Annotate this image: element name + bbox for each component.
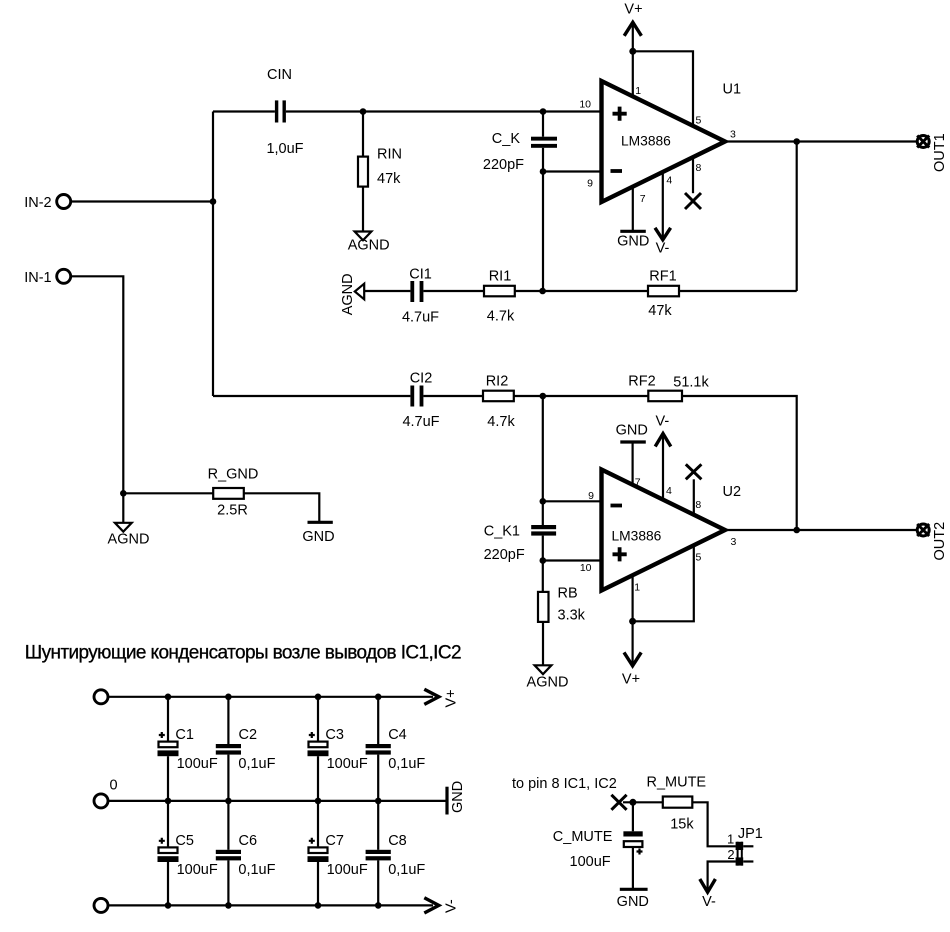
pin number 1 U1 — [635, 85, 641, 97]
wire CIN to pin 10 — [286, 110, 601, 112]
pin 8 no-connect X U2 — [686, 464, 702, 515]
wire CI2 to RI2 — [423, 395, 483, 397]
svg-text:GND: GND — [450, 781, 466, 813]
svg-text:100uF: 100uF — [570, 854, 611, 870]
svg-text:100uF: 100uF — [177, 862, 218, 878]
svg-text:0,1uF: 0,1uF — [238, 756, 275, 772]
capacitor C3 100uF — [308, 697, 368, 801]
pin number 3 U1 — [730, 129, 736, 141]
svg-text:JP1: JP1 — [738, 826, 763, 842]
wire RF2 to output U2 — [682, 396, 797, 530]
connector IN-1 — [24, 269, 71, 286]
wire V- rail — [108, 904, 433, 906]
wire output U1 — [725, 140, 917, 142]
pin number 2 JP1 — [727, 847, 734, 862]
connector OUT1 — [917, 133, 948, 172]
svg-text:5: 5 — [696, 115, 702, 127]
wire input bus to CI2 — [213, 395, 410, 397]
op-amp U2 LM3886 — [602, 470, 742, 591]
svg-text:47k: 47k — [648, 303, 672, 319]
capacitor C8 0,1uF — [366, 801, 426, 906]
wire R_MUTE to JP1 pin 1 — [692, 802, 736, 846]
svg-text:to pin 8 IC1, IC2: to pin 8 IC1, IC2 — [512, 776, 617, 792]
wire input bus vertical — [212, 112, 214, 397]
junction V+ rail C2 — [225, 694, 232, 701]
wire IN-1 down to R_GND node — [71, 276, 123, 493]
wire R_GND to GND — [244, 493, 319, 522]
svg-text:7: 7 — [635, 476, 641, 488]
svg-text:4.7uF: 4.7uF — [402, 414, 439, 430]
svg-text:15k: 15k — [670, 816, 694, 832]
pin number 4 U1 — [666, 175, 672, 187]
junction 0 rail C1 — [165, 798, 172, 805]
wire feedback vertical U1 — [796, 142, 798, 292]
svg-text:V+: V+ — [624, 2, 642, 18]
power V+ rail arrow — [424, 689, 459, 707]
svg-text:10: 10 — [580, 562, 592, 574]
svg-text:IN-1: IN-1 — [24, 270, 51, 286]
svg-text:8: 8 — [696, 162, 702, 174]
svg-text:C5: C5 — [175, 833, 194, 849]
svg-text:GND: GND — [616, 422, 648, 438]
svg-text:7: 7 — [640, 193, 646, 205]
svg-text:C7: C7 — [325, 833, 344, 849]
wire V+ rail — [108, 696, 433, 698]
junction C_K top tap — [540, 108, 547, 115]
power V- arrow pin 4 U2 — [655, 413, 671, 500]
svg-text:GND: GND — [302, 529, 334, 545]
svg-text:R_GND: R_GND — [208, 467, 259, 483]
svg-text:V-: V- — [656, 240, 670, 256]
resistor RIN 47k — [358, 112, 402, 232]
capacitor C1 100uF — [158, 697, 218, 801]
svg-text:OUT2: OUT2 — [932, 522, 948, 561]
svg-text:CI2: CI2 — [410, 371, 433, 387]
pin number 8 U1 — [696, 162, 702, 174]
ground GND pin 7 U2 — [616, 422, 648, 485]
svg-text:4.7uF: 4.7uF — [402, 310, 439, 326]
pin number 5 U2 — [696, 551, 702, 563]
svg-text:AGND: AGND — [108, 532, 150, 548]
svg-text:4: 4 — [666, 485, 672, 497]
svg-text:100uF: 100uF — [327, 756, 368, 772]
power V+ arrow U2 — [622, 621, 641, 687]
svg-text:4.7k: 4.7k — [487, 414, 515, 430]
svg-text:V-: V- — [656, 413, 670, 429]
wire pin 5 to V+ node U2 — [633, 545, 694, 621]
svg-text:1: 1 — [634, 582, 640, 594]
svg-text:Шунтирующие конденсаторы возле: Шунтирующие конденсаторы возле выводов I… — [25, 643, 461, 664]
ground GND right of R_GND — [302, 522, 334, 545]
ground GND pin 7 U1 — [617, 187, 649, 250]
resistor R_MUTE 15k — [646, 774, 706, 832]
svg-text:RI1: RI1 — [489, 269, 512, 285]
connector 0 rail left — [94, 778, 118, 808]
junction output U1 — [793, 138, 800, 145]
svg-text:3.3k: 3.3k — [558, 608, 586, 624]
resistor RI1 4.7k — [484, 269, 515, 325]
resistor RF2 51.1k — [628, 374, 709, 402]
svg-text:C8: C8 — [388, 833, 407, 849]
connector V- rail left — [94, 898, 108, 912]
capacitor CIN — [266, 67, 303, 157]
svg-text:100uF: 100uF — [327, 862, 368, 878]
svg-text:2.5R: 2.5R — [217, 503, 248, 519]
junction C_K1 bottom — [540, 557, 547, 564]
ground AGND under R_GND node — [108, 493, 150, 547]
junction 0 rail C2 — [225, 798, 232, 805]
pin number 7 U2 — [635, 476, 641, 488]
svg-text:47k: 47k — [377, 171, 401, 187]
pin number 10 U1 — [579, 99, 591, 111]
junction V+ rail C1 — [165, 694, 172, 701]
wire junction down to pin 9 — [542, 396, 544, 501]
wire IN-2 to input bus — [71, 200, 213, 202]
svg-text:CI1: CI1 — [409, 267, 432, 283]
pin number 3 U2 — [731, 536, 737, 548]
ground GND rail symbol — [447, 781, 466, 815]
node X mute input — [611, 795, 626, 810]
svg-text:220pF: 220pF — [484, 547, 525, 563]
junction 0 rail C3 — [315, 798, 322, 805]
capacitor C6 0,1uF — [216, 801, 276, 906]
svg-text:AGND: AGND — [340, 273, 356, 315]
junction 0 rail C4 — [375, 798, 382, 805]
wire CIN row left — [213, 110, 275, 112]
ground GND under C_MUTE — [617, 889, 649, 910]
svg-text:3: 3 — [730, 129, 736, 141]
pin 8 no-connect X U1 — [685, 157, 701, 209]
svg-text:8: 8 — [695, 499, 701, 511]
svg-text:V-: V- — [702, 894, 716, 910]
connector OUT2 — [917, 522, 948, 561]
capacitor C_MUTE 100uF — [553, 802, 643, 889]
junction inverting input U2 — [540, 393, 547, 400]
capacitor C2 0,1uF — [216, 697, 276, 801]
pin number 9 U2 — [588, 490, 594, 502]
svg-text:C4: C4 — [388, 727, 407, 743]
svg-text:0: 0 — [109, 778, 117, 794]
wire X to R_MUTE — [623, 801, 663, 803]
svg-text:5: 5 — [696, 551, 702, 563]
resistor RI2 4.7k — [483, 374, 515, 431]
wire pin 9 input U2 — [543, 500, 601, 502]
wire AGND to CI1 — [364, 290, 410, 292]
ground AGND feedback row — [340, 273, 364, 315]
svg-text:AGND: AGND — [527, 675, 569, 691]
svg-text:U1: U1 — [723, 82, 742, 98]
svg-text:V-: V- — [444, 899, 460, 913]
op-amp U1 LM3886 — [602, 81, 742, 202]
svg-text:RF1: RF1 — [649, 269, 676, 285]
power V- arrow mute — [700, 879, 716, 910]
svg-text:4: 4 — [666, 175, 672, 187]
wire pin 10 input U2 — [543, 559, 601, 561]
svg-text:3: 3 — [731, 536, 737, 548]
svg-text:GND: GND — [617, 894, 649, 910]
wire V+ node to pin 5 — [633, 51, 693, 126]
svg-text:9: 9 — [587, 177, 593, 189]
power V+ arrow U1 — [624, 2, 642, 52]
wire pin 1 to V+ node — [632, 51, 634, 97]
ground AGND under RB — [527, 665, 569, 690]
svg-text:2: 2 — [727, 847, 734, 862]
capacitor CI2 4.7uF — [402, 371, 439, 431]
svg-text:1: 1 — [727, 831, 734, 846]
ground AGND under RIN — [348, 232, 390, 254]
pin number 8 U2 — [695, 499, 701, 511]
svg-text:RIN: RIN — [377, 147, 402, 163]
junction C_K bottom tap — [540, 168, 547, 175]
junction IN-2 / bus — [210, 198, 217, 205]
svg-text:RF2: RF2 — [628, 374, 655, 390]
wire output U2 — [725, 529, 917, 531]
junction V- rail C6 — [225, 902, 232, 909]
junction V- rail C7 — [315, 902, 322, 909]
wire pin 9 input — [543, 170, 601, 172]
svg-text:220pF: 220pF — [483, 157, 524, 173]
capacitor C_K1 220pF — [484, 501, 557, 563]
pin number 5 U1 — [696, 115, 702, 127]
junction RIN tap — [360, 108, 367, 115]
pin number 7 U1 — [640, 193, 646, 205]
junction V- rail C8 — [375, 902, 382, 909]
junction V+ node U2 — [629, 618, 636, 625]
pin number 1 JP1 — [727, 831, 734, 846]
svg-text:C3: C3 — [325, 727, 344, 743]
power V- rail arrow — [424, 898, 459, 913]
svg-text:AGND: AGND — [348, 237, 390, 253]
junction R_GND node — [120, 490, 127, 497]
node label to pin 8 IC1, IC2 — [512, 776, 617, 792]
svg-text:V+: V+ — [622, 672, 640, 688]
svg-text:C_MUTE: C_MUTE — [553, 829, 613, 845]
svg-text:U2: U2 — [723, 484, 742, 500]
svg-text:V+: V+ — [444, 689, 460, 707]
svg-text:OUT1: OUT1 — [932, 133, 948, 172]
wire RI1 to junction — [515, 290, 648, 292]
wire RI2 to junction — [514, 395, 649, 397]
svg-text:GND: GND — [617, 233, 649, 249]
svg-text:10: 10 — [579, 99, 591, 111]
svg-text:51.1k: 51.1k — [673, 375, 709, 391]
capacitor CI1 4.7uF — [402, 267, 439, 326]
wire 0 rail — [108, 800, 447, 802]
junction V+ rail C4 — [375, 694, 382, 701]
wire C_K node down to feedback — [542, 172, 544, 292]
resistor RF1 47k — [648, 269, 679, 319]
svg-text:C2: C2 — [239, 727, 258, 743]
pin number 1 U2 — [634, 582, 640, 594]
wire pin 1 to V+ node U2 — [631, 575, 633, 621]
pin number 4 U2 — [666, 485, 672, 497]
capacitor C7 100uF — [308, 801, 368, 906]
junction V+ node U1 — [629, 48, 636, 55]
jumper JP1 — [736, 826, 763, 866]
connector IN-2 — [24, 195, 71, 212]
svg-text:C_K1: C_K1 — [484, 524, 520, 540]
junction V+ rail C3 — [315, 694, 322, 701]
svg-text:C6: C6 — [239, 833, 258, 849]
pin number 9 U1 — [587, 177, 593, 189]
svg-text:0,1uF: 0,1uF — [388, 756, 425, 772]
junction C_K1 top — [540, 498, 547, 505]
svg-text:1: 1 — [635, 85, 641, 97]
wire R_GND node to resistor — [123, 492, 213, 494]
svg-text:LM3886: LM3886 — [612, 529, 662, 544]
connector V+ rail left — [94, 690, 108, 704]
svg-text:C1: C1 — [175, 727, 194, 743]
svg-text:C_K: C_K — [492, 131, 521, 147]
capacitor C5 100uF — [158, 801, 218, 906]
svg-text:1,0uF: 1,0uF — [266, 141, 303, 157]
wire CI1 to RI1 — [423, 290, 484, 292]
capacitor C_K 220pF — [483, 112, 557, 174]
junction V- rail C5 — [165, 902, 172, 909]
title bypass capacitors note — [25, 643, 461, 664]
junction mute node — [629, 799, 636, 806]
junction output U2 — [793, 527, 800, 534]
wire JP1 pin 2 to V- — [708, 862, 736, 892]
svg-text:0,1uF: 0,1uF — [388, 862, 425, 878]
power V- arrow pin 4 U1 — [655, 172, 671, 256]
svg-text:RI2: RI2 — [486, 374, 509, 390]
svg-text:CIN: CIN — [267, 67, 292, 83]
resistor R_GND 2.5R — [208, 467, 259, 519]
svg-text:9: 9 — [588, 490, 594, 502]
junction feedback U1 — [539, 288, 546, 295]
svg-text:4.7k: 4.7k — [487, 309, 515, 325]
resistor RB 3.3k — [538, 561, 586, 665]
svg-text:RB: RB — [558, 586, 578, 602]
wire RF1 to output — [679, 290, 797, 292]
capacitor C4 0,1uF — [366, 697, 426, 801]
pin number 10 U2 — [580, 562, 592, 574]
svg-text:100uF: 100uF — [177, 756, 218, 772]
svg-text:0,1uF: 0,1uF — [238, 862, 275, 878]
svg-text:R_MUTE: R_MUTE — [646, 774, 706, 790]
svg-text:LM3886: LM3886 — [621, 133, 671, 148]
svg-text:IN-2: IN-2 — [24, 195, 51, 211]
